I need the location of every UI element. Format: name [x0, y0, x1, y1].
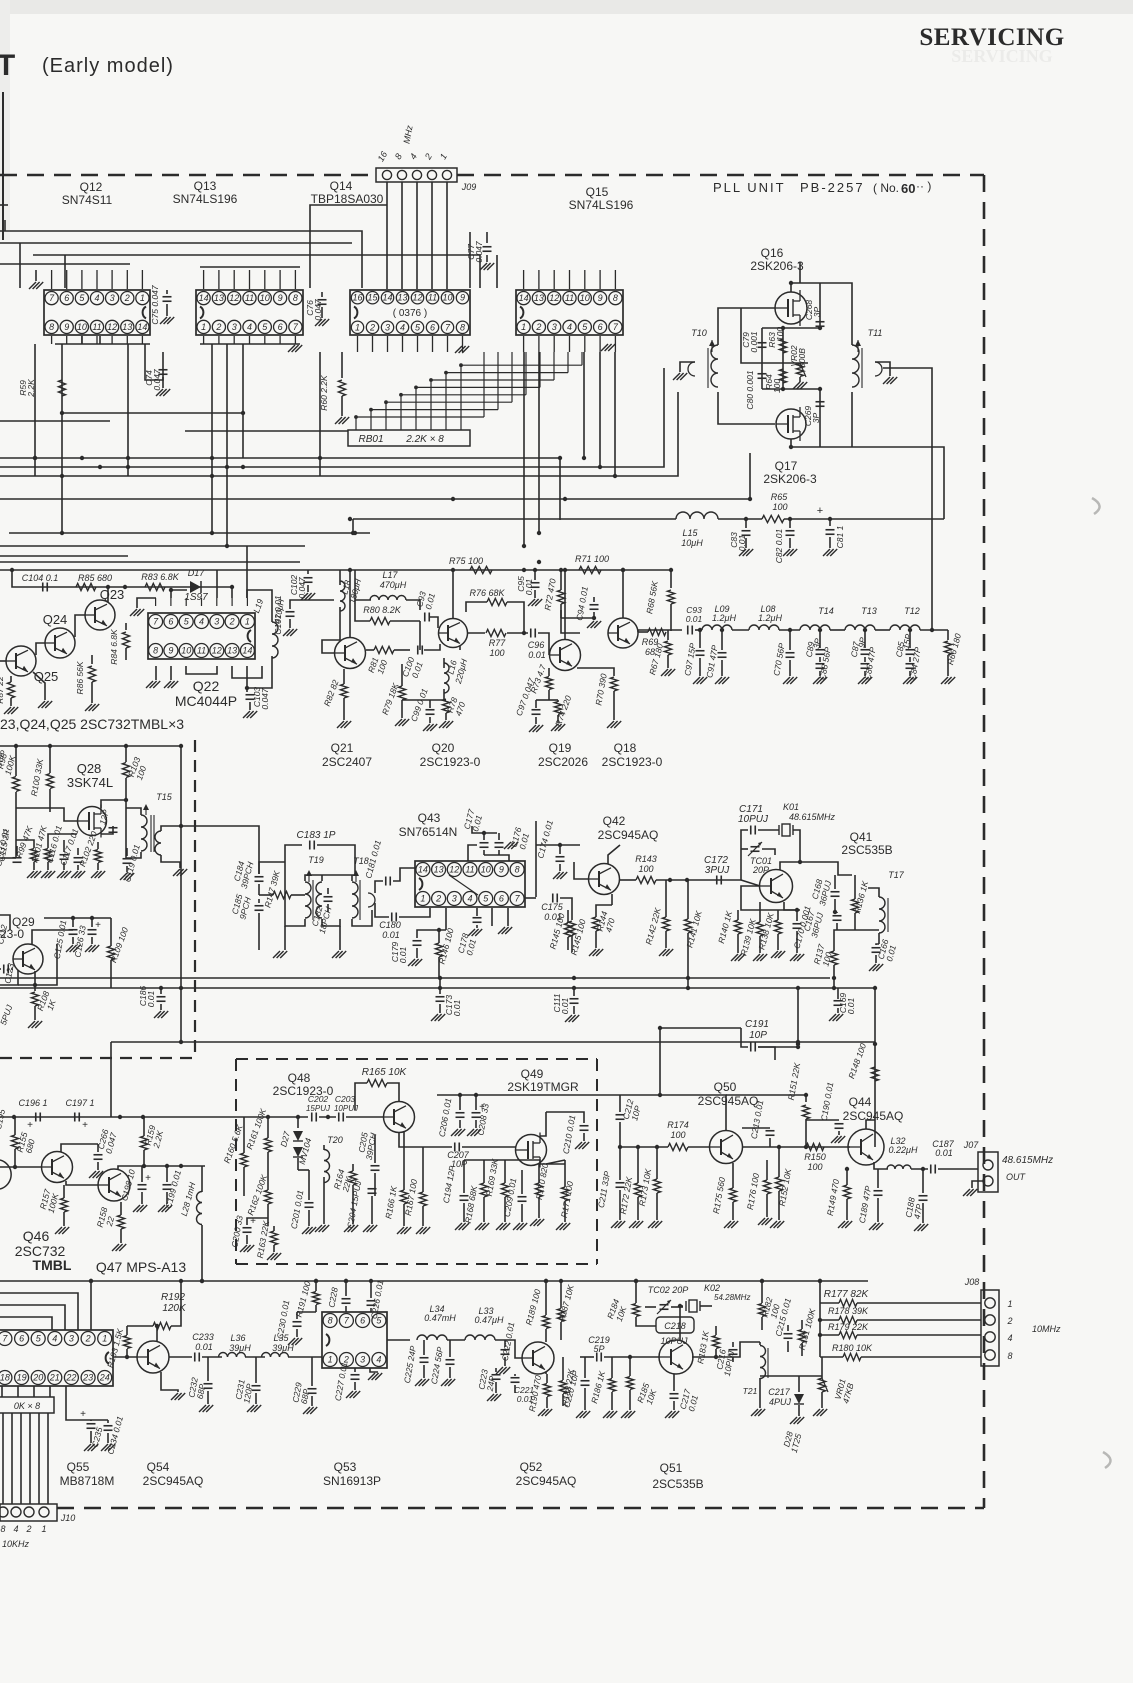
svg-text:12: 12: [449, 865, 459, 875]
wire: [429, 700, 431, 708]
svg-text:1: 1: [420, 894, 425, 904]
svg-text:48.615MHz: 48.615MHz: [789, 812, 836, 822]
transistor Q21: [335, 638, 366, 669]
resistor R157 100K: [60, 1198, 67, 1212]
wire: [170, 666, 172, 680]
wire: [200, 343, 300, 345]
wire: [789, 538, 791, 548]
resistor R69 68: [648, 628, 666, 635]
connector J08: [981, 1290, 999, 1366]
resistor R145 100: [568, 921, 575, 935]
svg-text:0.01: 0.01: [452, 999, 462, 1016]
svg-text:12: 12: [107, 322, 117, 332]
wire: [846, 1169, 848, 1185]
inductor L36 39uH: [219, 1353, 246, 1357]
wire: [629, 1390, 631, 1410]
ground C209: [513, 1223, 520, 1230]
svg-text:PLL UNIT: PLL UNIT: [713, 180, 786, 195]
svg-text:Q49: Q49: [521, 1067, 544, 1081]
svg-text:K01: K01: [783, 802, 799, 812]
wire: [820, 1302, 839, 1304]
wire: [0, 1305, 65, 1330]
capacitor C171 10PUJ: [750, 826, 752, 835]
capacitor C224 56P: [446, 1359, 455, 1361]
wire: [308, 1210, 310, 1226]
wire: [629, 1357, 631, 1376]
ground C188: [914, 1224, 921, 1231]
svg-text:T17: T17: [888, 870, 905, 880]
ground C227: [346, 1391, 353, 1398]
wire: [611, 894, 613, 905]
inductor L15: [676, 512, 718, 519]
wire: [695, 629, 702, 631]
wire: [77, 848, 79, 855]
svg-text:48.615MHz: 48.615MHz: [1002, 1155, 1053, 1166]
wire: [298, 1169, 309, 1171]
wire: [611, 1392, 613, 1410]
svg-text:0.01: 0.01: [686, 614, 703, 624]
ground Q15 pin7: [601, 344, 608, 351]
wire: [819, 671, 821, 676]
wire: [247, 1218, 268, 1225]
svg-text:39μH: 39μH: [272, 1343, 294, 1353]
svg-text:22: 22: [65, 1373, 76, 1383]
ground R149: [838, 1221, 845, 1228]
ground R175: [724, 1221, 731, 1228]
svg-text:10: 10: [580, 293, 590, 303]
wire: [15, 806, 17, 858]
wire: [464, 1160, 540, 1164]
resistor R80 8.2K: [370, 617, 390, 624]
wire: [613, 691, 615, 720]
wire: [762, 327, 820, 329]
svg-text:54.28MHz: 54.28MHz: [714, 1293, 750, 1302]
wire: [619, 1095, 621, 1112]
svg-text:13: 13: [397, 293, 407, 303]
resistor R87: [7, 682, 14, 698]
wire: [798, 1376, 800, 1392]
wire: [439, 1004, 441, 1013]
svg-text:14: 14: [137, 322, 147, 332]
transistor Q42: [589, 864, 620, 895]
svg-text:10: 10: [442, 293, 452, 303]
wire: [33, 1386, 35, 1397]
wire: [595, 931, 597, 948]
wire: [258, 913, 260, 950]
resistor R143 100: [636, 876, 656, 883]
ground R144: [589, 949, 596, 956]
wire: [538, 1164, 540, 1183]
wire: [718, 392, 775, 424]
wire: [0, 1317, 52, 1330]
ground R86: [85, 704, 92, 711]
wire: [91, 918, 93, 927]
wire: [557, 715, 559, 723]
svg-text:9: 9: [278, 293, 283, 303]
capacitor C119 0.01: [123, 858, 132, 860]
resistor R174 100: [668, 1143, 688, 1150]
ground C76: [315, 319, 322, 326]
capacitor C197 1: [74, 1113, 76, 1122]
capacitor C228 0.01: [342, 1298, 351, 1300]
wire: [564, 570, 566, 639]
ground Q13 pin7: [288, 345, 295, 352]
wire: [101, 800, 126, 808]
ground R173: [648, 1221, 655, 1228]
wire: [353, 518, 676, 520]
wire: [819, 630, 821, 648]
wire: [72, 937, 74, 944]
svg-text:Q18: Q18: [614, 741, 637, 755]
wire: [741, 308, 752, 363]
ground R78: [439, 721, 446, 728]
ground R163: [267, 1253, 274, 1260]
svg-text:+: +: [27, 1120, 33, 1131]
wire: [801, 1320, 803, 1329]
wire: [399, 1132, 452, 1147]
wire: [319, 352, 321, 476]
svg-text:3: 3: [69, 1334, 74, 1344]
wire: [259, 894, 273, 896]
svg-text:0.01: 0.01: [560, 997, 570, 1014]
capacitor C166 0.01: [872, 947, 881, 949]
wire: [584, 1357, 586, 1378]
wire: [549, 699, 558, 701]
wire: [0, 1280, 868, 1282]
svg-text:2SC1923-0: 2SC1923-0: [602, 755, 663, 769]
svg-text:14: 14: [382, 293, 392, 303]
svg-text:2: 2: [229, 617, 235, 627]
wire: [909, 657, 911, 662]
capacitor C229 68P: [308, 1388, 317, 1390]
wire: [352, 1185, 354, 1196]
wire: [777, 934, 779, 950]
wire: [645, 1306, 656, 1308]
wire: [34, 1006, 36, 1020]
IC Q12 SN74S11: [44, 290, 150, 335]
wire: [417, 930, 446, 938]
wire: [161, 826, 240, 831]
wire T10 arrow: [711, 340, 713, 352]
svg-text:Q48: Q48: [288, 1071, 311, 1085]
ground C194: [455, 1223, 462, 1230]
wire: [0, 392, 678, 476]
wire: [564, 1201, 566, 1222]
svg-text:R178 39K: R178 39K: [828, 1306, 869, 1316]
wire: [534, 590, 536, 598]
wire: [548, 690, 550, 700]
svg-text:MC4044P: MC4044P: [175, 693, 237, 709]
svg-text:3: 3: [232, 322, 237, 332]
svg-text:R180 10K: R180 10K: [832, 1343, 873, 1353]
ground R158: [112, 1244, 119, 1251]
wire: [741, 848, 748, 850]
capacitor C126 33: [88, 929, 97, 931]
transistor Q46: [42, 1152, 73, 1183]
svg-text:24: 24: [99, 1373, 110, 1383]
resistor R64: [779, 369, 786, 383]
resistor R63: [779, 339, 786, 353]
capacitor C199 0.01: [163, 1184, 172, 1186]
wire: [322, 640, 334, 653]
potentiometer VR02 500B: [796, 364, 803, 377]
wire: [857, 1334, 981, 1336]
svg-text:2SC945AQ: 2SC945AQ: [698, 1094, 759, 1108]
wire: [341, 396, 343, 416]
wire: [947, 630, 949, 640]
svg-text:14: 14: [519, 293, 529, 303]
wire: [830, 629, 845, 631]
wire: [583, 1133, 585, 1141]
wire: [36, 643, 45, 655]
svg-text:Q51: Q51: [660, 1461, 683, 1475]
ground C94: [587, 621, 594, 628]
wire: [483, 1197, 485, 1222]
capacitor C185 9PCH: [255, 905, 264, 907]
svg-text:Q46: Q46: [23, 1228, 50, 1244]
wire: [113, 1356, 137, 1358]
ground C225: [415, 1379, 422, 1386]
wire: [778, 1147, 780, 1177]
resistor R98 100K: [12, 777, 19, 792]
wire: [110, 960, 112, 988]
wire: [55, 343, 150, 345]
svg-text:9: 9: [598, 293, 603, 303]
svg-text:1: 1: [201, 322, 206, 332]
wire: [66, 1386, 91, 1420]
capacitor C215 0.01: [784, 1333, 793, 1335]
svg-text:0.047: 0.047: [313, 299, 323, 321]
ground C97: [529, 725, 536, 732]
resistor R65: [762, 515, 784, 522]
capacitor C221 0.01: [511, 1377, 520, 1379]
resistor R186 1K: [608, 1379, 615, 1392]
wire: [619, 1147, 621, 1180]
wire: [469, 232, 471, 288]
wire: [47, 862, 49, 870]
wire: [319, 1116, 336, 1118]
wire: [761, 1281, 763, 1303]
wire: [0, 263, 130, 265]
wire: [680, 362, 695, 372]
wire: [305, 875, 355, 881]
wire: [864, 657, 866, 662]
wire: [911, 1168, 928, 1170]
wire: [577, 668, 614, 676]
resistor R190 470: [543, 1384, 550, 1397]
svg-text:Q24: Q24: [43, 612, 68, 627]
svg-text:SERVICING: SERVICING: [951, 46, 1052, 66]
wire: [656, 1147, 658, 1179]
resistor R158 22: [117, 1215, 124, 1229]
wire: [854, 913, 856, 930]
wire: [536, 699, 549, 701]
page mark right edge upper: [1092, 498, 1100, 514]
ground R79: [395, 719, 402, 726]
resistor R161 100K: [264, 1138, 271, 1152]
svg-text:10: 10: [260, 293, 270, 303]
wire: [909, 671, 911, 676]
wire: [834, 930, 879, 951]
svg-text:J09: J09: [461, 182, 477, 192]
svg-text:3P: 3P: [812, 306, 822, 317]
wire: [355, 570, 371, 600]
ground R166: [397, 1227, 404, 1234]
ground C179: [408, 959, 415, 966]
wire: [267, 1204, 269, 1226]
ground C174: [553, 872, 560, 879]
wire: [438, 930, 440, 943]
wire: [0, 1166, 41, 1168]
wire: [443, 689, 445, 700]
ground R157: [55, 1227, 62, 1234]
wire: [327, 904, 329, 912]
wire: [504, 1197, 506, 1222]
wire: [370, 1368, 378, 1372]
wire: [343, 698, 345, 720]
wire: [166, 304, 168, 316]
wire: [820, 1356, 843, 1358]
wire: [35, 270, 37, 281]
svg-text:100: 100: [772, 502, 787, 512]
wire: [375, 903, 389, 917]
wire: [637, 1197, 639, 1220]
wire: [498, 850, 500, 855]
wire: [557, 700, 559, 702]
wire: [126, 848, 128, 856]
svg-text:8: 8: [460, 322, 465, 332]
wire: [97, 842, 99, 849]
wire: [240, 1116, 308, 1118]
wire: [366, 649, 374, 651]
wire: [972, 1181, 983, 1188]
wire: [718, 518, 762, 520]
resistor R178 39K: [839, 1316, 857, 1323]
wire: [805, 1095, 807, 1102]
svg-text:SN74S11: SN74S11: [62, 193, 113, 207]
wire: [741, 830, 748, 880]
ground R102: [91, 871, 98, 878]
wire: [11, 1413, 13, 1504]
wire: [504, 1340, 506, 1347]
wire: [290, 600, 334, 609]
resistor R75: [470, 566, 492, 573]
ground Q22 pin7: [130, 609, 137, 616]
ground C126: [85, 945, 92, 952]
svg-text:+: +: [80, 1409, 86, 1420]
wire: [288, 1356, 322, 1358]
svg-text:18: 18: [0, 1373, 10, 1383]
svg-text:C202: C202: [308, 1094, 329, 1104]
svg-text:0.047: 0.047: [260, 688, 270, 710]
svg-text:14: 14: [199, 293, 209, 303]
ground C199: [158, 1205, 165, 1212]
capacitor C74: [159, 369, 168, 371]
resistor R71: [579, 566, 601, 573]
svg-text:C191: C191: [745, 1019, 769, 1030]
wire: [866, 1120, 875, 1129]
wire: [230, 977, 830, 979]
svg-text:R83 6.8K: R83 6.8K: [141, 572, 180, 582]
wire T18 arrow: [355, 872, 357, 882]
wire: [29, 1413, 31, 1504]
wire: [766, 1160, 768, 1180]
wire: [211, 344, 213, 533]
wire: [507, 602, 524, 633]
wire: [799, 262, 801, 283]
resistor R181 100K: [798, 1330, 805, 1343]
ground C125: [66, 945, 73, 952]
wire: [406, 600, 420, 610]
wire: [564, 1160, 566, 1187]
wire: [422, 1147, 424, 1192]
ground C231: [247, 1405, 254, 1412]
svg-text:9: 9: [499, 865, 504, 875]
FET Q28: [78, 807, 107, 836]
svg-text:0.01: 0.01: [398, 946, 408, 963]
wire: [160, 988, 162, 994]
wire: [947, 655, 949, 676]
wire: [495, 1382, 497, 1393]
svg-text:8: 8: [515, 865, 520, 875]
svg-text:1: 1: [245, 617, 250, 627]
svg-text:14: 14: [242, 646, 252, 656]
ground C99: [423, 724, 430, 731]
wire: [201, 1225, 203, 1281]
ground C223: [487, 1394, 494, 1401]
wire: [125, 746, 127, 762]
ground C169: [829, 1014, 836, 1021]
svg-text:(Early model): (Early model): [42, 55, 174, 77]
PLL unit dashed border right: [983, 175, 986, 1508]
wire: [909, 630, 911, 648]
wire: [97, 1162, 99, 1170]
wire: [883, 368, 932, 630]
resistor R192 120K: [153, 1322, 171, 1329]
wire: [459, 1120, 461, 1128]
wire: [200, 266, 300, 268]
wire: [0, 968, 1, 970]
ground R172: [629, 1221, 636, 1228]
ground C170: [790, 954, 797, 961]
wire: [670, 604, 672, 631]
wire: [14, 1149, 16, 1166]
dashed box Q48 Q49 sub-unit: [236, 1058, 597, 1060]
wire: [535, 717, 537, 724]
ground R70: [607, 721, 614, 728]
wire: [322, 919, 340, 926]
wire: [14, 1117, 16, 1135]
svg-text:SN74LS196: SN74LS196: [173, 192, 238, 206]
wire: [245, 1356, 265, 1358]
wire: [721, 630, 723, 650]
wire: [789, 630, 791, 650]
wire: [599, 352, 601, 467]
wire: [126, 1326, 128, 1335]
svg-text:11: 11: [245, 293, 254, 303]
trimmer capacitor TC01 20P: [751, 846, 760, 848]
wire: [759, 936, 761, 953]
wire: [534, 570, 536, 580]
svg-text:RB01: RB01: [358, 434, 383, 445]
ground C103: [243, 711, 250, 718]
ground R138: [771, 951, 778, 958]
wire: [507, 908, 509, 926]
wire: [483, 1160, 485, 1183]
wire: [799, 377, 801, 382]
wire: [495, 1368, 497, 1372]
wire: [545, 1372, 547, 1374]
